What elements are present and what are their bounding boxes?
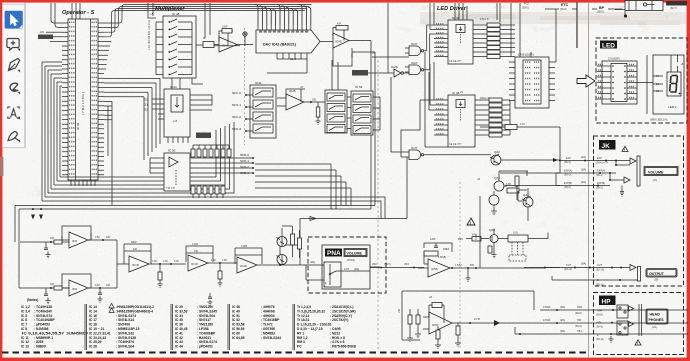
- VOLUME label box: [644, 167, 678, 183]
- capacitor A2 input to ground: [44, 288, 51, 304]
- op-amp A4 IC10b: [186, 243, 237, 271]
- capacitor to ground in JK: [620, 186, 624, 197]
- warning triangle JK: [622, 146, 628, 152]
- junction dots OUT line: [475, 267, 591, 270]
- notes column A: [21, 305, 89, 349]
- resistor row below IC50: [191, 186, 225, 198]
- node EXP labels outside: [564, 156, 586, 189]
- junction dots EXP lines: [584, 160, 607, 187]
- transistor Q22: [438, 150, 560, 165]
- IC36 pin name ticks left column: [69, 22, 75, 174]
- wire gate line 27: [352, 53, 409, 73]
- wire EXP lines: [500, 161, 630, 186]
- capacitor C10 to ground: [98, 287, 213, 305]
- LED label: [600, 41, 617, 50]
- GATE hatched label left: [38, 35, 62, 42]
- wire hp section frame: [402, 291, 534, 340]
- op-amp IC57 headphone amp: [423, 303, 496, 335]
- capacitor A1 input to ground: [44, 242, 51, 258]
- notes divider 3: [228, 304, 230, 350]
- jack OUTPUT: [611, 265, 641, 282]
- node RE5: [458, 234, 489, 242]
- transistor Q23 group: [489, 171, 528, 211]
- node PCZ label: [522, 3, 529, 10]
- wire IC36 pins join bundle: [104, 41, 111, 69]
- wire OUT to Q23 cluster vertical: [475, 196, 480, 268]
- op-amp IC43: [214, 29, 253, 53]
- wire A1 input: [20, 237, 69, 244]
- IC36 pin name ticks right column: [92, 22, 98, 174]
- JK dashed box: [594, 136, 684, 286]
- IC50 left pins: [150, 158, 164, 173]
- transistor Q28: [277, 237, 288, 247]
- wire op-amp out down: [352, 41, 375, 210]
- wire bus left drop: [15, 206, 19, 289]
- multiplexer IC48: [163, 12, 196, 78]
- page fold line vertical 1: [377, 60, 379, 352]
- wire mid horizontals to JK: [300, 157, 407, 221]
- resistor row above IC50: [191, 145, 231, 157]
- node EXP labels inside: [596, 157, 609, 190]
- resistor array RM1: [473, 18, 515, 59]
- red viewer border bottom: [0, 358, 690, 361]
- JK label: [599, 140, 616, 150]
- OUTPUT label box: [646, 269, 677, 282]
- wire OUT lines: [545, 268, 625, 281]
- IC50 right pins to SFD: [190, 158, 252, 173]
- wire array outputs right: [373, 97, 380, 130]
- DAC top pin stubs: [258, 25, 311, 30]
- page fold line vertical 1b: [459, 182, 461, 350]
- page fold line vertical 2: [588, 2, 590, 358]
- resistor IC57 lower: [435, 323, 461, 348]
- notes column D: [232, 305, 281, 340]
- GATE hatched label mid: [352, 70, 368, 76]
- notes divider 1: [85, 304, 87, 350]
- red viewer border left: [0, 0, 2, 361]
- wire top entries left of IC36: [51, 3, 62, 27]
- inverter IC28: [388, 3, 409, 77]
- IC48 input stubs and labels: [148, 3, 163, 75]
- PORTAMENTO hatched label: [666, 1, 687, 10]
- node ETC label: [545, 3, 577, 11]
- op-amp IC45b: [277, 89, 325, 110]
- transistor Q31: [518, 188, 533, 221]
- left page edge gray-red block: [0, 157, 3, 176]
- wire A1 output: [88, 236, 117, 288]
- wire top feeds to IC43: [203, 3, 210, 38]
- op-amp chip IC36 YM2128 body: [68, 19, 98, 180]
- HP dashed box: [594, 293, 684, 355]
- wire long bus pair: [15, 206, 375, 210]
- op-amp A5 IC40: [235, 245, 300, 273]
- wire IC56 out labels: [455, 264, 475, 281]
- wire A0: [46, 31, 62, 33]
- capacitor 47/16 out: [469, 318, 688, 326]
- node BP label: [592, 6, 622, 14]
- wire DAC bus to top edge: [255, 5, 311, 26]
- wire JK routing verticals right: [255, 164, 351, 209]
- warning triangle mid: [467, 218, 475, 225]
- wire HPR line: [540, 306, 688, 315]
- op-amp IC56: [414, 253, 545, 277]
- page fold line vertical 0: [244, 28, 246, 145]
- wire CN31 top feeds: [497, 3, 556, 62]
- IC34 top pins: [455, 3, 467, 20]
- relay block top right: [615, 1, 663, 18]
- relay C39: [508, 232, 528, 262]
- driver IC34: [448, 16, 473, 64]
- wire IC48 output to IC43: [172, 45, 203, 89]
- junction circle: [214, 32, 247, 46]
- transistor Q30: [488, 228, 548, 258]
- toolbar pen tool: [9, 59, 21, 73]
- warning triangle HP: [635, 340, 641, 346]
- wire OUT to jack: [524, 267, 560, 269]
- feedback box around IC45 output: [333, 48, 352, 66]
- toolbar selected cursor tool: [5, 11, 23, 29]
- notes column B: [89, 305, 154, 349]
- nand gate IC27b: [405, 34, 434, 75]
- wire right-of-IC36 bundle to DAC bus: [104, 5, 312, 37]
- CN110 pin labels: [598, 65, 634, 98]
- amp block IC50: [164, 149, 190, 192]
- dashed page cut line bottom: [2, 352, 590, 354]
- ground Q23: [491, 211, 497, 215]
- jack VOLUME pedal: [609, 156, 640, 186]
- 7seg display LED2: [653, 55, 684, 114]
- resistor A3 to ground: [158, 264, 163, 287]
- PNA label: [325, 249, 342, 258]
- connector CN110: [597, 58, 637, 105]
- resistor A4 to ground: [218, 263, 223, 286]
- LED board dashed box: [596, 38, 687, 123]
- DAC IC42 body: [256, 30, 320, 53]
- wire left bundle entries from IC: [42, 62, 62, 86]
- resistor pair near Q28: [282, 226, 302, 258]
- notes column C: [175, 305, 217, 349]
- resistor EXP feed: [480, 123, 561, 162]
- resistor array RM2: [475, 97, 510, 137]
- resistors IC57 input: [398, 308, 420, 338]
- potentiometer VR3: [424, 247, 449, 259]
- wire A2 input: [19, 283, 69, 290]
- jack HEADPHONES: [609, 304, 642, 342]
- notes divider 2: [171, 304, 173, 350]
- op-amp A1 IC9: [62, 226, 91, 248]
- wire driver input bus verticals: [420, 52, 448, 147]
- toolbar stamp tool: [8, 132, 20, 143]
- GATE hatched label below IC44: [196, 133, 211, 139]
- potentiometer PVR1: [324, 262, 342, 287]
- op-amp IC45: [320, 26, 371, 49]
- wire A2 output: [88, 284, 117, 288]
- notes column E: [297, 305, 356, 349]
- wire IC52 feeds: [332, 60, 351, 129]
- connector CN31: [509, 53, 555, 109]
- node OUT labels: [564, 263, 604, 287]
- HP label: [599, 296, 616, 306]
- junction arrows on bus: [31, 208, 43, 220]
- PNA VOLUME inner box: [322, 245, 370, 289]
- wire EXP drops: [556, 161, 560, 186]
- red viewer border right: [687, 0, 690, 361]
- wire right-of-IC36 lower fan to multiplexer/routing: [104, 78, 160, 160]
- wire left bundle bottoms: [42, 122, 385, 219]
- ground IC57: [407, 334, 421, 342]
- IC35 left pins: [430, 62, 448, 135]
- capacitor VR3 100P: [424, 238, 452, 252]
- node SFD labels: [240, 153, 254, 175]
- op-amp A3 IC10: [117, 241, 186, 272]
- nand gate IC27a: [405, 25, 434, 56]
- IC36 left pin stubs: [62, 23, 68, 175]
- analog switch IC44: [164, 85, 190, 137]
- switch array IC52: [351, 85, 373, 135]
- node HP labels inside: [596, 310, 604, 342]
- transistor Q29: [277, 255, 288, 265]
- switch array IC41: [250, 81, 276, 138]
- wire IC36 top pins to edge: [72, 3, 80, 19]
- wire CN110 to LED2: [637, 55, 653, 114]
- resistor to ground after IC45b: [316, 102, 321, 124]
- nand gate IC27c: [391, 77, 438, 160]
- wire PNA in/out: [300, 261, 380, 280]
- feedback loop: [219, 31, 233, 45]
- op-amp A2 IC9b: [62, 274, 91, 296]
- VOLUME small label box: [344, 249, 367, 257]
- wire loop to PNA box: [280, 219, 300, 266]
- red viewer border top: [0, 0, 690, 3]
- IC34 left pins: [430, 3, 448, 57]
- driver IC35: [448, 91, 475, 147]
- scan noise band top right: [420, 12, 690, 25]
- HEADPHONES label box: [646, 309, 668, 329]
- DAC bottom stubs: [267, 53, 307, 73]
- toolbar highlight tool: [10, 83, 20, 94]
- IC44 right pins: [190, 95, 212, 110]
- wire PNA to VR3: [370, 263, 424, 269]
- toolbar panel: [2, 3, 25, 148]
- switch array IC46: [325, 90, 347, 133]
- hollow arrow to LED board: [577, 75, 595, 87]
- IC48 switch cells: [168, 19, 192, 75]
- toolbar comment tool: [7, 39, 20, 52]
- wire IC36 right lower pins route down: [104, 101, 112, 205]
- IC44 bottom stubs: [168, 137, 188, 143]
- resistor 450K: [203, 42, 214, 48]
- warning triangles notes: [109, 304, 114, 313]
- notes divider 4: [293, 304, 295, 350]
- wire HPL line labels: [543, 319, 582, 328]
- IC36 right pin stubs: [98, 23, 104, 175]
- node SFC labels: [232, 91, 253, 132]
- wire E line: [515, 327, 688, 335]
- PNA VOLUME dashed box: [308, 237, 386, 293]
- toolbar text tool: [8, 107, 20, 120]
- node +B labels: [300, 86, 480, 299]
- wire left bundle verticals: [42, 62, 60, 201]
- IC36 bottom stubs: [71, 180, 95, 186]
- IC44 left pins D0-D2: [144, 98, 164, 120]
